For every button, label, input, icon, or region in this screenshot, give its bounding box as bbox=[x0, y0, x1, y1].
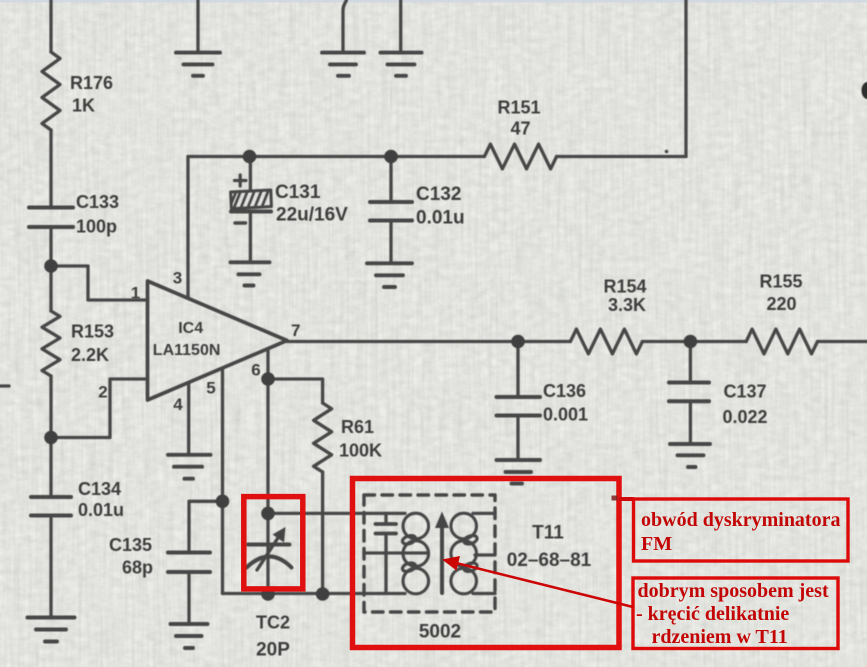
capacitor C137 stub bbox=[689, 342, 692, 382]
svg-text:- kręcić delikatnie: - kręcić delikatnie bbox=[636, 603, 789, 625]
wire pin 3 bbox=[186, 157, 189, 299]
op-amp IC4 triangle bbox=[148, 281, 288, 400]
ground under C136 bbox=[497, 460, 541, 484]
svg-text:1K: 1K bbox=[72, 96, 95, 116]
ground top 1 bbox=[176, 53, 220, 76]
junction node pin 6 bbox=[261, 372, 275, 386]
svg-text:68p: 68p bbox=[122, 558, 153, 578]
capacitor C137 bbox=[669, 383, 709, 402]
svg-text:R153: R153 bbox=[71, 322, 114, 342]
C131 minus sign bbox=[235, 221, 246, 224]
svg-text:0.01u: 0.01u bbox=[78, 500, 124, 520]
resistor R61 bbox=[314, 403, 332, 472]
svg-text:R155: R155 bbox=[759, 272, 802, 292]
wire C131 to ground bbox=[249, 214, 252, 263]
ground under pin 4 bbox=[168, 455, 211, 479]
svg-text:R154: R154 bbox=[603, 277, 646, 297]
red annotation box 1 bbox=[634, 499, 849, 561]
wire pin 6 bbox=[266, 349, 269, 514]
wire C134 to ground bbox=[49, 519, 52, 618]
capacitor C134 bbox=[31, 497, 71, 516]
capacitor C132 stub bbox=[389, 157, 392, 201]
transformer T11 dashed box bbox=[364, 495, 495, 612]
wire node A to R153 bbox=[49, 266, 52, 311]
T11 secondary middle stub bbox=[475, 553, 495, 556]
T11 middle tap line bbox=[364, 551, 427, 554]
capacitor C133 bbox=[29, 208, 73, 228]
svg-text:220: 220 bbox=[766, 294, 796, 314]
red highlight box TC2 bbox=[244, 497, 303, 589]
svg-text:R151: R151 bbox=[497, 98, 540, 118]
wire node B to C134 bbox=[49, 438, 52, 498]
wire node C to C135 bbox=[189, 501, 223, 551]
svg-text:4: 4 bbox=[173, 395, 183, 414]
svg-text:C131: C131 bbox=[275, 182, 321, 203]
svg-text:5002: 5002 bbox=[419, 622, 461, 643]
T11 primary coil bbox=[401, 513, 428, 594]
svg-text:3: 3 bbox=[173, 269, 182, 288]
svg-text:C137: C137 bbox=[724, 382, 767, 402]
wire to top ground 2 bbox=[343, 0, 347, 51]
blob right edge bbox=[862, 82, 867, 99]
speck near connector bbox=[612, 496, 618, 501]
junction node TC2 bottom bbox=[261, 587, 275, 601]
ground under C131 bbox=[231, 262, 270, 285]
ground top 2 bbox=[322, 53, 364, 76]
resistor R155 bbox=[746, 329, 817, 354]
wire R151 to corner bbox=[557, 155, 686, 158]
svg-text:5: 5 bbox=[206, 379, 215, 398]
resistor R153 bbox=[42, 311, 60, 376]
svg-text:7: 7 bbox=[291, 321, 300, 340]
svg-text:obwód dyskryminatora: obwód dyskryminatora bbox=[641, 509, 840, 531]
wire R155 to right edge bbox=[818, 340, 867, 343]
red annotation box 2 bbox=[633, 578, 838, 649]
wire corner up to top edge bbox=[684, 0, 687, 157]
svg-text:0.001: 0.001 bbox=[543, 405, 588, 425]
T11 tuning core arrow bbox=[435, 512, 449, 594]
wire R153 to node B bbox=[49, 376, 52, 438]
svg-text:C132: C132 bbox=[416, 184, 461, 205]
svg-text:2: 2 bbox=[98, 383, 107, 402]
resistor R151 bbox=[484, 144, 556, 169]
C131 negative plate bbox=[231, 210, 271, 214]
T11 secondary top stub bbox=[473, 512, 495, 515]
capacitor C132 bbox=[370, 202, 412, 221]
red arrow to T11 core bbox=[450, 562, 633, 608]
svg-text:TC2: TC2 bbox=[256, 613, 290, 633]
wire to top ground 1 bbox=[196, 0, 199, 52]
capacitor C136 bbox=[497, 397, 541, 416]
wire R61 to bottom bus bbox=[321, 472, 324, 594]
wire pin 2 to node B bbox=[51, 379, 147, 438]
svg-text:0.022: 0.022 bbox=[723, 407, 768, 427]
T11 secondary coil bbox=[451, 513, 478, 594]
svg-text:3.3K: 3.3K bbox=[608, 295, 646, 315]
T11 internal capacitor stub bbox=[384, 513, 387, 522]
wire TC2 node to transformer bbox=[268, 512, 405, 515]
wire pin 6 to R61 bbox=[268, 379, 323, 403]
wire C132 to ground bbox=[389, 223, 392, 264]
junction node TC2 top bbox=[261, 507, 275, 521]
svg-text:rdzeniem w T11: rdzeniem w T11 bbox=[652, 626, 788, 648]
red connector line bbox=[619, 497, 634, 501]
wire to top ground 3 bbox=[399, 0, 402, 51]
svg-text:IC4: IC4 bbox=[178, 320, 203, 337]
svg-text:dobrym sposobem jest: dobrym sposobem jest bbox=[638, 580, 829, 602]
svg-text:47: 47 bbox=[510, 119, 530, 139]
svg-text:R61: R61 bbox=[341, 417, 374, 437]
svg-text:FM: FM bbox=[641, 533, 672, 555]
wire supply bus bbox=[188, 155, 484, 158]
svg-text:22u/16V: 22u/16V bbox=[276, 205, 348, 226]
ground under C135 bbox=[171, 624, 208, 648]
wire R176 to C133 bbox=[49, 130, 52, 206]
wire bottom bus bbox=[223, 592, 406, 595]
junction node pin5/C135 bbox=[216, 495, 230, 509]
wire pin 5 down to bottom bus bbox=[221, 501, 224, 593]
ground under C134 bbox=[28, 618, 75, 642]
svg-text:1: 1 bbox=[131, 284, 140, 303]
wire C137 to ground bbox=[689, 403, 692, 443]
svg-text:C133: C133 bbox=[76, 192, 119, 212]
T11 secondary bottom stub bbox=[473, 592, 495, 595]
wire left column top bbox=[49, 0, 52, 52]
wire C135 to ground bbox=[187, 574, 190, 624]
junction node B bbox=[44, 431, 58, 445]
svg-text:100p: 100p bbox=[76, 217, 117, 237]
svg-text:0.01u: 0.01u bbox=[416, 208, 465, 229]
svg-text:T11: T11 bbox=[532, 523, 564, 544]
T11 internal capacitor bbox=[376, 524, 397, 534]
wire R154 to R155 bbox=[642, 340, 746, 343]
C131 plus sign bbox=[235, 175, 247, 186]
junction node R61 bottom bbox=[316, 587, 330, 601]
svg-text:02–68–81: 02–68–81 bbox=[507, 550, 592, 571]
svg-text:100K: 100K bbox=[339, 441, 382, 461]
capacitor C135 bbox=[168, 553, 210, 573]
junction node bus/C131 bbox=[243, 150, 257, 164]
capacitor C131 stub bbox=[249, 157, 252, 192]
wire T11 capacitor to bottom bbox=[384, 536, 387, 594]
svg-text:LA1150N: LA1150N bbox=[153, 342, 221, 359]
junction node pin7/C136 bbox=[511, 335, 525, 349]
wire pin 7 output bbox=[287, 340, 570, 343]
wire pin 5 bbox=[221, 368, 224, 501]
red arrowhead bbox=[442, 556, 460, 571]
wire pin 4 bbox=[187, 383, 190, 454]
svg-text:2.2K: 2.2K bbox=[71, 345, 109, 365]
resistor R176 bbox=[42, 52, 60, 130]
wire C136 to ground bbox=[516, 418, 519, 460]
wire node A to pin 1 bbox=[51, 266, 147, 300]
junction node A bbox=[44, 259, 58, 273]
resistor R154 bbox=[570, 329, 642, 354]
ground under C137 bbox=[670, 444, 710, 467]
capacitor C136 stub bbox=[516, 342, 519, 396]
stub at left edge bbox=[0, 384, 9, 387]
svg-text:C136: C136 bbox=[543, 381, 586, 401]
speck on wire bbox=[665, 150, 669, 154]
svg-text:C135: C135 bbox=[109, 535, 152, 555]
red highlight box T11 bbox=[353, 479, 620, 648]
trimmer capacitor TC2 bbox=[247, 527, 292, 570]
wire C133 to node A bbox=[49, 229, 52, 266]
svg-text:20P: 20P bbox=[256, 640, 290, 661]
svg-text:C134: C134 bbox=[78, 479, 121, 499]
ground top 3 bbox=[381, 53, 422, 76]
ground under C132 bbox=[367, 263, 412, 287]
svg-text:R176: R176 bbox=[70, 73, 113, 93]
wire through trimmer TC2 bbox=[266, 513, 269, 594]
C131 hatched positive plate bbox=[231, 190, 272, 209]
svg-text:6: 6 bbox=[251, 361, 260, 380]
junction node R154/C137 bbox=[684, 335, 698, 349]
junction node bus/C132 bbox=[384, 150, 398, 164]
